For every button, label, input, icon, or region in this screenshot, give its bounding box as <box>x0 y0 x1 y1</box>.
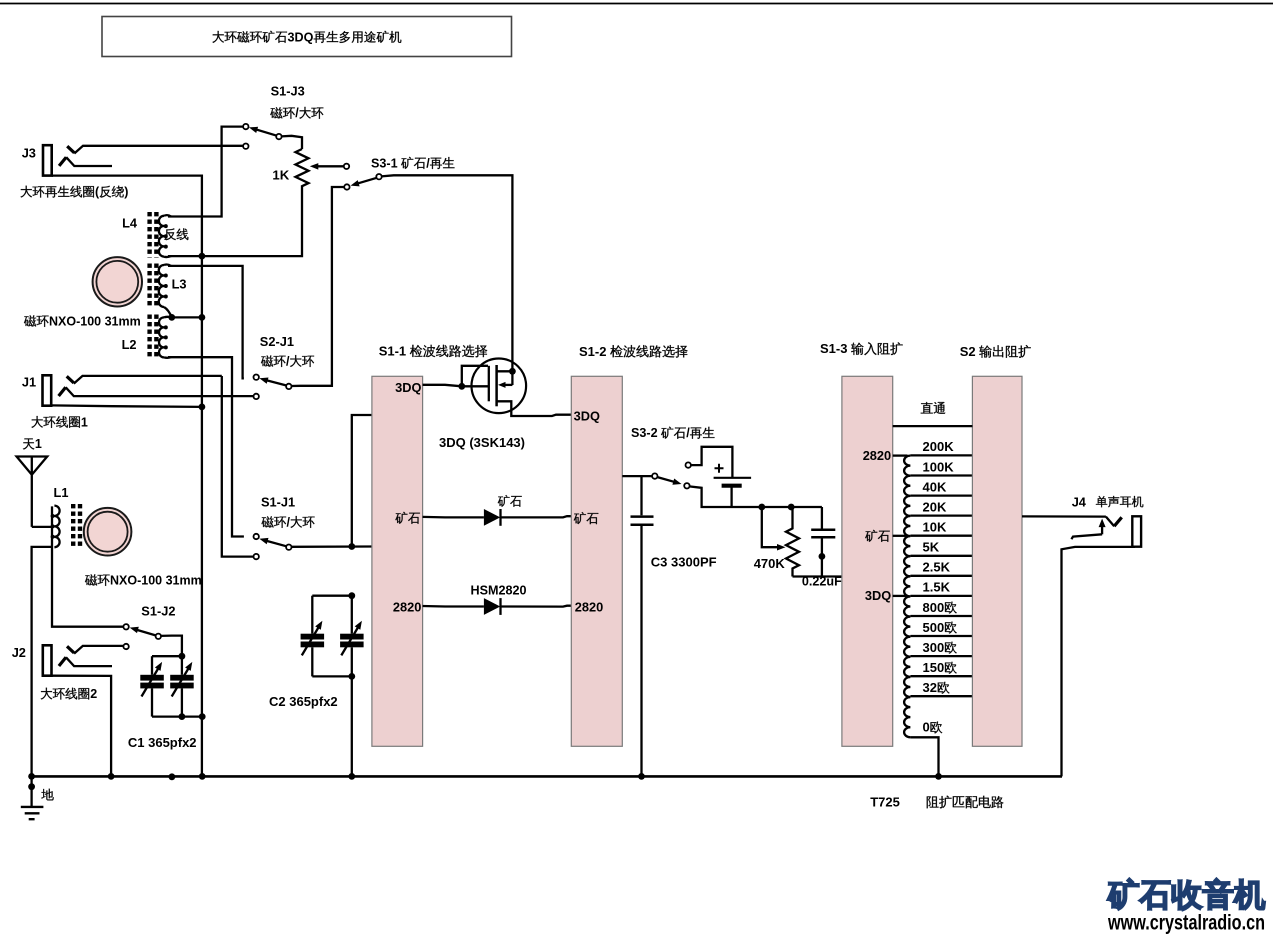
core dashes L4/L3/L2 column <box>147 212 151 258</box>
MOSFET drain lead <box>497 371 513 385</box>
svg-text:www.crystalradio.cn: www.crystalradio.cn <box>1107 911 1265 935</box>
svg-text:J2: J2 <box>12 645 26 660</box>
transformer tap 800欧 <box>910 615 972 617</box>
svg-text:20K: 20K <box>923 499 947 514</box>
label zhitong <box>921 402 933 413</box>
transformer tap 40K <box>910 494 972 496</box>
label J2 coil <box>41 688 53 700</box>
svg-text:S3-1: S3-1 <box>371 156 398 170</box>
svg-text:150: 150 <box>923 660 945 675</box>
label S1-1 kuangshi <box>395 512 407 524</box>
switch S3-2 pole <box>652 473 657 478</box>
switch S1-J1 pole <box>286 545 291 550</box>
svg-text:/: / <box>286 354 290 368</box>
transformer tap 100K <box>910 474 972 476</box>
wire S2-J1 pole up to S3-1 throw <box>291 187 344 386</box>
svg-text:3DQ: 3DQ <box>395 380 421 395</box>
switch S2-J1 throw1 <box>254 375 259 380</box>
transformer tap 20K <box>910 514 972 516</box>
switch S1-J2 arm <box>134 629 156 636</box>
svg-text:L4: L4 <box>122 216 138 231</box>
wire S3-2 upper throw to battery + <box>691 447 733 477</box>
label toroid 2 <box>85 574 97 585</box>
resistor 470K body <box>786 507 799 577</box>
jack J4 sleeve <box>1132 516 1141 546</box>
junction dot x202/L4-bottom <box>199 253 206 260</box>
svg-text:500: 500 <box>923 620 945 635</box>
inductor L1 (spine + bumps right) <box>52 506 124 626</box>
svg-text:3DQ: 3DQ <box>865 588 891 603</box>
toroid core NXO-100 (upper) <box>93 257 142 306</box>
transformer tap 10K <box>910 535 972 537</box>
wire L2 bottom to S1-J1 throw1 <box>168 357 244 536</box>
wire 1K bottom to L4 bottom junction <box>168 185 302 256</box>
jack J4 tip arrow <box>1101 524 1103 535</box>
diode D1 kuangshi (crystal) <box>484 509 500 526</box>
wire S1-J3 throw1 to L4 top (x221.6 vertical) <box>168 127 243 217</box>
antenna symbol <box>17 457 48 527</box>
battery B1 short plate <box>722 484 742 488</box>
switch S2-J1 throw2 <box>254 394 259 399</box>
MOSFET gate bar <box>488 366 490 402</box>
svg-text:C2 365pfx2: C2 365pfx2 <box>269 694 338 709</box>
MOSFET source lead w/ arrow <box>504 384 513 386</box>
switch S1-J2 throw2 <box>123 644 128 649</box>
transformer tap 150欧 <box>910 675 972 677</box>
svg-text:L3: L3 <box>172 277 187 292</box>
jack J1 sleeve <box>43 375 52 405</box>
svg-text:C3 3300PF: C3 3300PF <box>651 555 717 570</box>
tick S1-3 kuangshi <box>893 535 908 537</box>
wire zhitong (direct) <box>893 425 973 427</box>
wire antenna to L1 tap <box>32 526 52 528</box>
capacitor C3 3300PF <box>640 476 642 515</box>
wire S1-1 3DQ to gate <box>423 385 488 387</box>
wire S3-1 pole to MOSFET drain (x512 vertical) <box>381 175 512 371</box>
ground symbol <box>30 776 32 807</box>
jack J4 check contact <box>1106 517 1114 527</box>
wire S1-2 out to S3-2 <box>622 475 652 477</box>
switch S1-J3 arm <box>254 129 278 136</box>
470K wiper <box>762 507 777 547</box>
wire S1-J3 pole to 1K top <box>281 136 302 149</box>
svg-text:): ) <box>124 185 128 199</box>
diode D2 HSM2820 <box>484 598 500 615</box>
title text <box>212 31 224 43</box>
switch box S1-2 <box>571 376 622 746</box>
capacitor C1 right section <box>181 656 183 675</box>
switch S1-J1 throw2 <box>254 554 259 559</box>
svg-text:L1: L1 <box>54 485 69 500</box>
jack J3 tip contact <box>67 146 74 153</box>
C2 left arrow <box>302 626 319 655</box>
label fan-xian (reverse wire) <box>164 228 176 240</box>
MOSFET bottom lead to S1-2 <box>497 401 572 416</box>
label J3 coil (reverse wound) <box>20 186 32 198</box>
svg-text:S3-2: S3-2 <box>631 426 658 440</box>
top border line <box>0 3 1273 5</box>
jack J3 sleeve <box>43 145 52 175</box>
transistor U1 3DQ(3SK143) MOSFET circle <box>472 359 527 414</box>
1K wiper arrow <box>318 165 345 167</box>
svg-text:2820: 2820 <box>575 600 603 615</box>
switch S2-J1 pole <box>286 384 291 389</box>
svg-text:2820: 2820 <box>863 448 891 463</box>
wire/junction L3 bottom - L2 top <box>172 316 202 318</box>
jack J2 sleeve <box>43 645 52 675</box>
wire C2 to ground <box>351 676 353 776</box>
wire J3 sleeve to ground bus (long vertical x202) <box>52 176 202 777</box>
switch S1-J1 throw1 <box>254 534 259 539</box>
wire branch up into S1-1 box left <box>352 415 372 547</box>
svg-text:/: / <box>426 156 430 170</box>
battery B1 long plate <box>714 477 752 479</box>
logo text <box>1108 879 1139 910</box>
svg-text:2820: 2820 <box>393 600 421 615</box>
wire L3 top to S2-J1 throw1 <box>168 266 244 379</box>
wire S1-J2 pole down to C1 top bus <box>161 636 182 657</box>
wire S1-1 2820 to D2 <box>423 605 484 608</box>
wire S2 out to J4 <box>1022 515 1106 517</box>
title box <box>102 17 512 57</box>
label S1-3 kuangshi <box>865 530 877 542</box>
transformer bottom lead to ground <box>910 737 938 776</box>
svg-text:S2: S2 <box>960 344 976 359</box>
battery B1 plus sign <box>715 464 724 473</box>
capacitor C2 bottom bus <box>312 675 352 677</box>
svg-text:L2: L2 <box>122 337 137 352</box>
switch S3-1 throw <box>344 184 349 189</box>
switch box S1-3 <box>842 376 893 746</box>
svg-text:3DQ (3SK143): 3DQ (3SK143) <box>439 435 525 450</box>
svg-text:/: / <box>287 515 291 529</box>
svg-text:1.5K: 1.5K <box>923 580 951 595</box>
wire RC bottom into S1-3 <box>793 575 842 577</box>
MOSFET gate loop <box>462 366 488 387</box>
label J1 coil <box>31 416 43 428</box>
wire J1 sleeve to x202 bus <box>51 405 202 407</box>
capacitor 0.22uF <box>821 507 823 529</box>
resistor 1K body <box>296 149 309 186</box>
svg-text:32: 32 <box>923 680 937 695</box>
switch S1-J3 pole <box>276 134 281 139</box>
svg-text:0: 0 <box>923 720 930 735</box>
switch S3-2 arm <box>657 477 678 483</box>
label ground <box>41 789 53 801</box>
label D1 kuangshi <box>498 495 510 507</box>
svg-text:J1: J1 <box>22 374 36 389</box>
C1 right arrow <box>172 668 189 697</box>
svg-text:S2-J1: S2-J1 <box>260 334 294 349</box>
svg-text:S1-1: S1-1 <box>379 344 406 359</box>
MOSFET channel bar <box>495 365 498 406</box>
svg-text:/: / <box>686 426 690 440</box>
svg-text:(: ( <box>95 185 100 199</box>
svg-text:40K: 40K <box>923 479 947 494</box>
transformer tap 32欧 <box>910 695 972 697</box>
1K wiper contact circle <box>344 164 349 169</box>
switch S3-2 throw upper <box>686 462 691 467</box>
svg-text:/: / <box>295 106 299 120</box>
inductor L4 <box>159 216 164 257</box>
jack J2 ring contact <box>59 657 66 666</box>
transformer tap 2.5K <box>910 575 972 577</box>
svg-text:S1-J1: S1-J1 <box>261 495 295 510</box>
svg-text:800: 800 <box>923 600 945 615</box>
switch S1-J3 throw1 <box>243 124 248 129</box>
capacitor C2 top bus <box>312 595 352 597</box>
wire L1 bottom to ground <box>32 547 52 777</box>
capacitor C2 right section <box>351 596 353 634</box>
tick S1-3 3DQ <box>893 595 908 597</box>
C2 right arrow <box>341 626 358 655</box>
capacitor C2 left section <box>311 596 313 634</box>
svg-text:300: 300 <box>923 640 945 655</box>
transformer tap 500欧 <box>910 635 972 637</box>
wire S1-J1 pole into S1-1 box <box>291 545 372 548</box>
capacitor C1 top bus <box>152 655 182 657</box>
jack J1 tip contact <box>67 376 74 383</box>
svg-text:10K: 10K <box>923 520 947 535</box>
transformer tap 1.5K <box>910 595 972 597</box>
svg-text:3DQ: 3DQ <box>288 30 314 44</box>
jack J4 tip spring <box>1071 534 1102 539</box>
switch S1-J2 pole <box>156 634 161 639</box>
svg-text:HSM2820: HSM2820 <box>471 583 527 597</box>
svg-text:2: 2 <box>90 687 97 701</box>
switch box S1-1 <box>372 376 423 746</box>
svg-text:1: 1 <box>35 437 42 451</box>
jack J1 ring contact <box>59 387 66 396</box>
switch S3-1 pole <box>376 174 381 179</box>
switch S1-J3 throw2 <box>243 144 248 149</box>
switch S2-J1 arm <box>264 380 287 386</box>
jack J3 ring contact <box>59 157 66 166</box>
wire D2 to S1-2 <box>501 605 572 608</box>
svg-text:100K: 100K <box>923 459 955 474</box>
svg-text:2.5K: 2.5K <box>923 560 951 575</box>
C1 left arrow <box>142 668 159 697</box>
inductor L3 <box>159 265 164 307</box>
svg-text:S1-J3: S1-J3 <box>271 83 305 98</box>
jack J2 tip contact <box>67 646 74 653</box>
capacitor C1 left section <box>151 656 153 675</box>
svg-text:3DQ: 3DQ <box>574 409 600 424</box>
switch S1-J1 arm <box>264 540 287 546</box>
label S1-2 kuangshi <box>574 512 586 524</box>
core dashes L1 <box>71 504 75 549</box>
switch S3-2 throw lower <box>684 483 689 488</box>
transformer tap 200K <box>910 454 972 456</box>
svg-text:J4: J4 <box>1072 494 1087 509</box>
switch S1-J2 throw1 <box>123 624 128 629</box>
wire S3-2 lower throw to RC node <box>689 486 822 507</box>
svg-text:1: 1 <box>81 415 88 429</box>
capacitor C1 bottom bus <box>152 715 202 717</box>
transformer T725 winding <box>904 456 910 738</box>
wire J4 sleeve to ground <box>1062 547 1136 777</box>
wire S1-1 kuangshi to D1 <box>423 516 484 519</box>
transformer tap 5K <box>910 555 972 557</box>
switch box S2 <box>972 376 1022 746</box>
toroid core NXO-100 (lower) <box>84 508 132 556</box>
svg-text:NXO-100 31mm: NXO-100 31mm <box>110 573 202 587</box>
label toroid 1 <box>24 315 36 326</box>
switch S3-1 arm <box>357 178 377 184</box>
inductor L2 <box>159 317 164 357</box>
tick S1-3 2820 <box>893 454 908 456</box>
svg-text:200K: 200K <box>923 439 955 454</box>
svg-text:5K: 5K <box>923 540 940 555</box>
svg-text:T725: T725 <box>870 795 900 810</box>
wire D1 to S1-2 <box>501 516 572 517</box>
svg-text:C1 365pfx2: C1 365pfx2 <box>128 735 197 750</box>
wire J2 sleeve to ground <box>52 676 112 777</box>
transformer tap 300欧 <box>910 655 972 657</box>
svg-text:S1-J2: S1-J2 <box>141 604 175 619</box>
wire J1 tip to S1-J1 throw2 <box>222 376 254 557</box>
svg-text:S1-3: S1-3 <box>820 341 847 356</box>
wire battery minus down <box>730 488 732 508</box>
ground bus <box>32 775 1062 778</box>
svg-text:S1-2: S1-2 <box>579 344 606 359</box>
svg-text:NXO-100 31mm: NXO-100 31mm <box>49 314 141 328</box>
label antenna T1 <box>23 438 34 449</box>
svg-text:470K: 470K <box>754 556 786 571</box>
svg-text:J3: J3 <box>22 145 36 160</box>
svg-text:1K: 1K <box>272 167 289 182</box>
